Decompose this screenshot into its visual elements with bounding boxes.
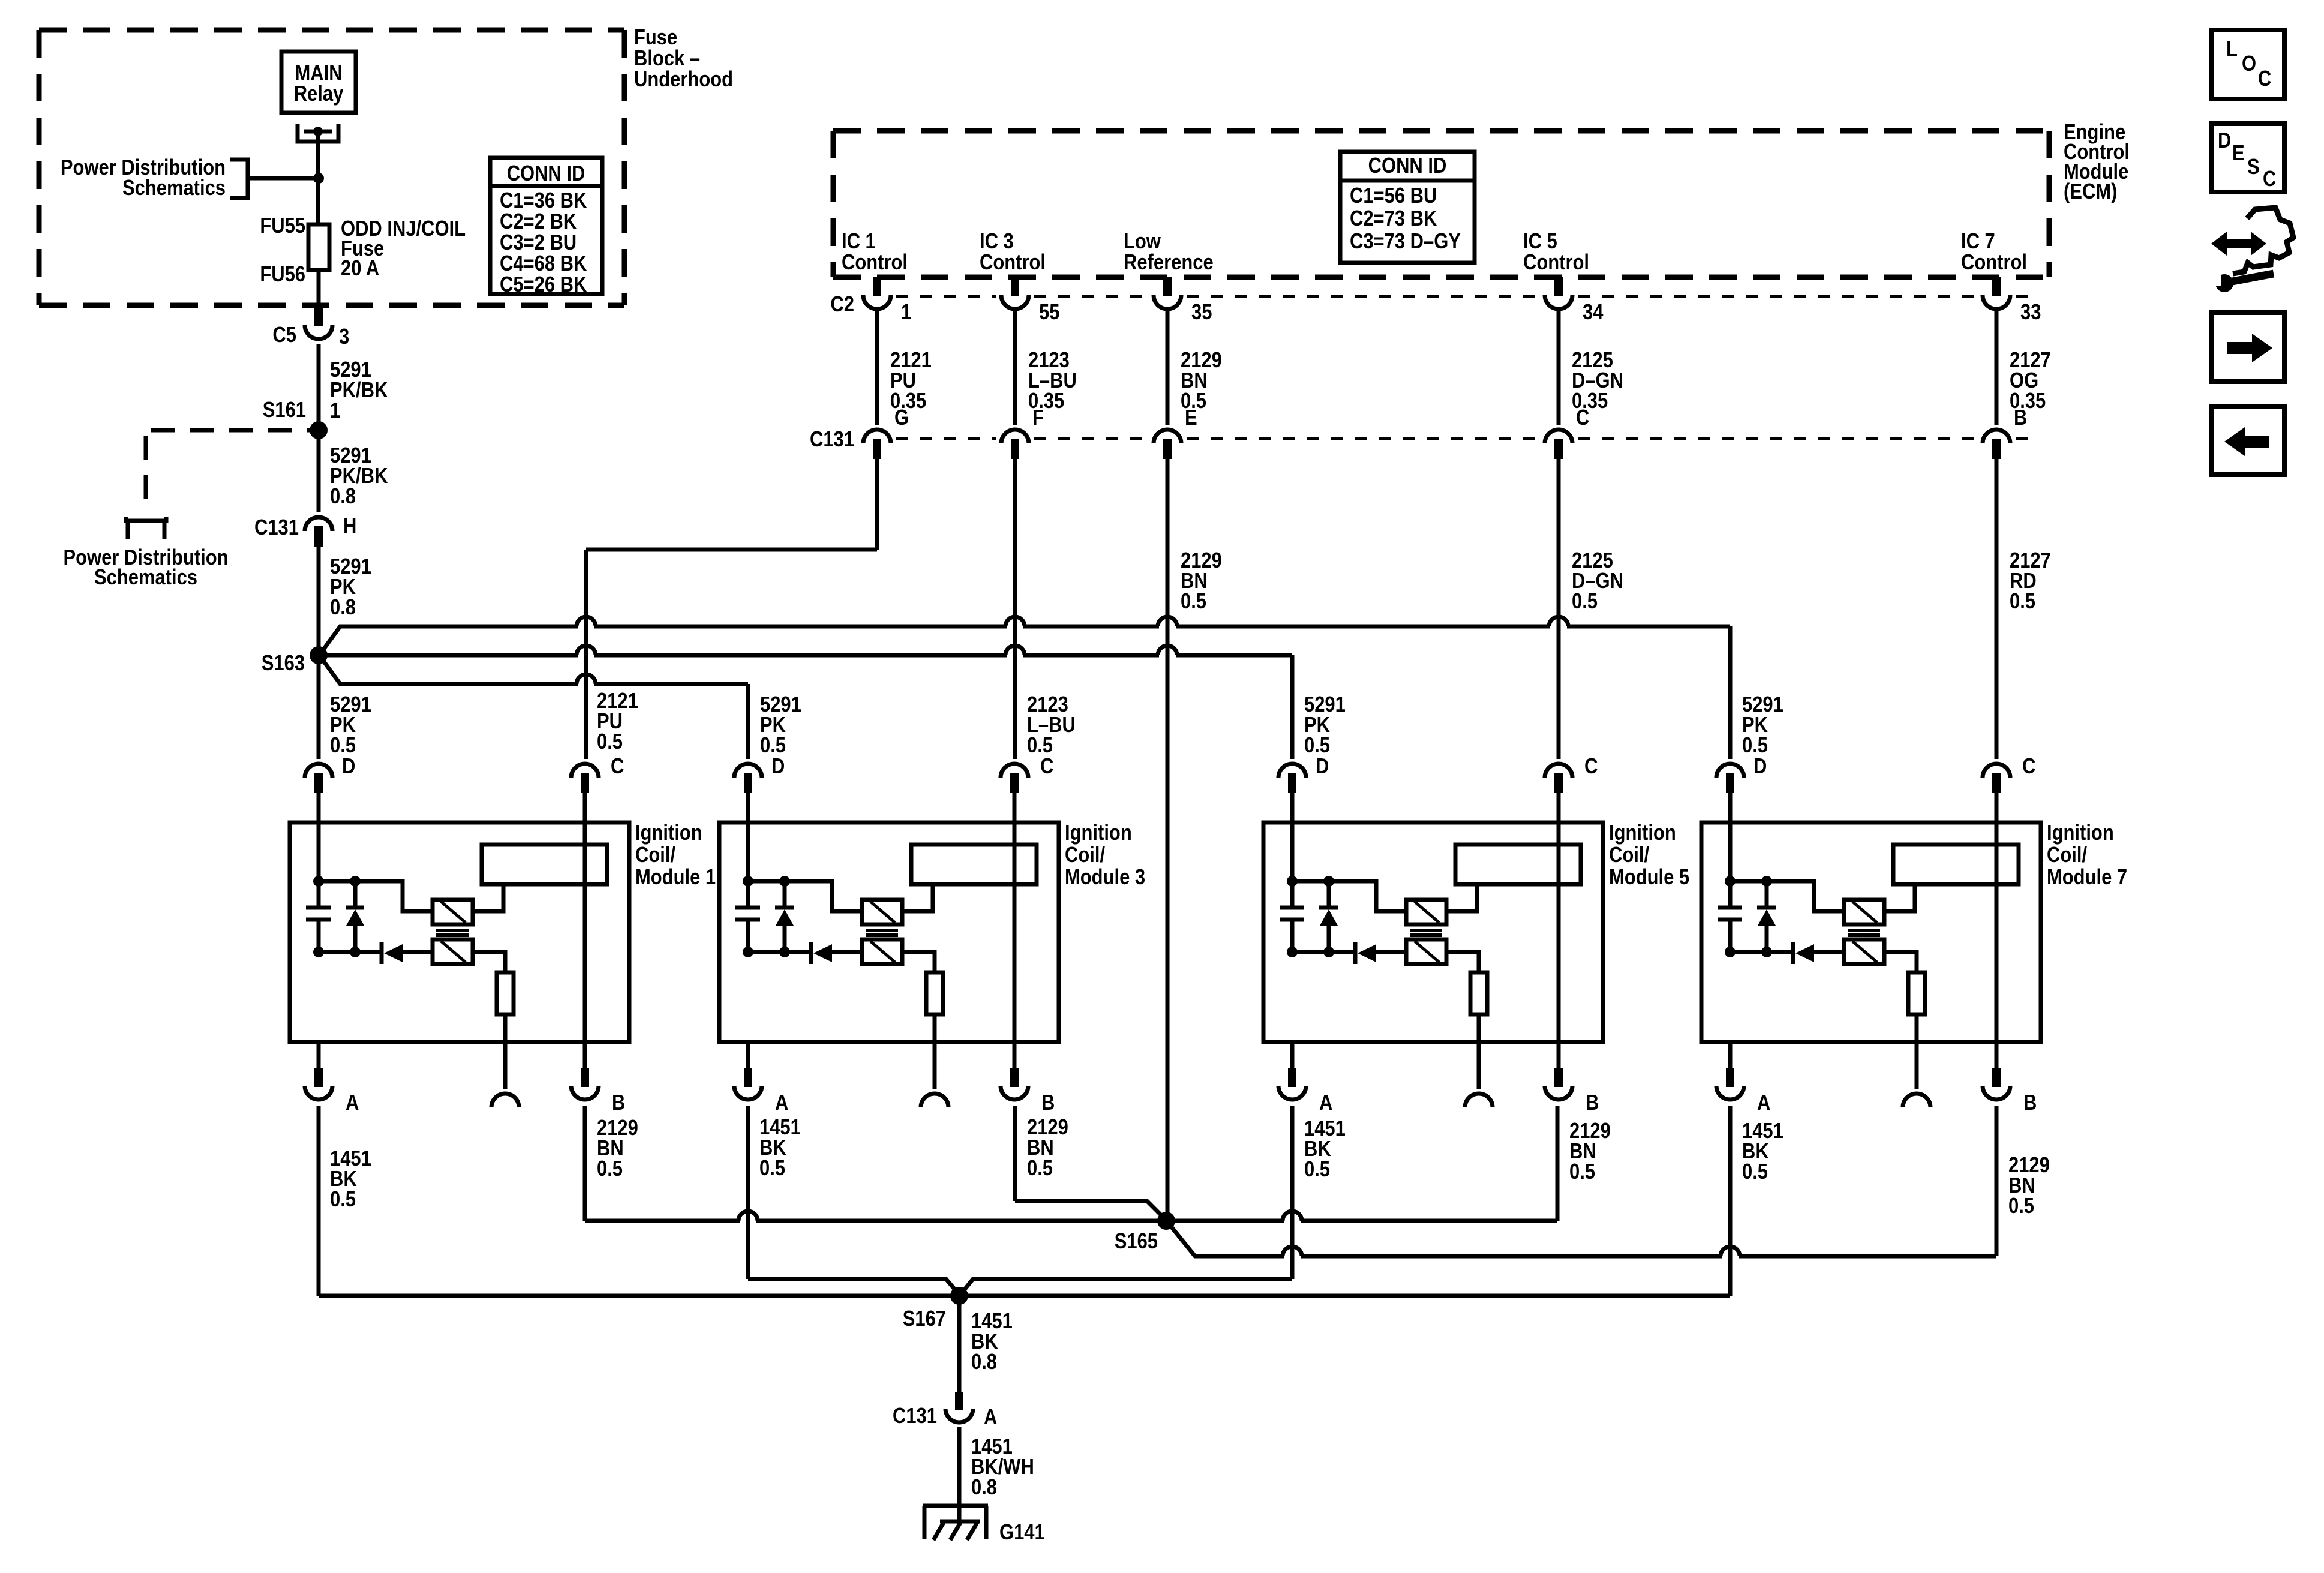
wire pin C through module 1 [583, 793, 587, 1068]
svg-text:34: 34 [1583, 301, 1604, 325]
svg-text:Control: Control [980, 251, 1046, 275]
svg-text:D: D [2218, 129, 2231, 153]
module 1 internal lower node right [350, 947, 361, 957]
svg-text:S: S [2247, 155, 2260, 179]
wire secondary to resistor module 7 [1884, 952, 1917, 972]
wire hop top branch over module3 C wire [1007, 623, 1023, 630]
wire resistor to spark output module 3 [933, 1014, 937, 1089]
ignition coil/module 1 connector pin D [305, 764, 332, 778]
connector C2 dotted gang line [896, 295, 996, 298]
wire hop S165-module7B wire over module5 A wire [1284, 1253, 1301, 1260]
capacitor module 7 [1728, 881, 1733, 906]
svg-text:0.5: 0.5 [1572, 590, 1598, 614]
wire 1451 BK 0.8 S167 to C131-A [957, 1296, 962, 1392]
svg-text:E: E [2232, 142, 2245, 166]
ignition coil/module 3 box [719, 822, 1059, 1042]
wire resistor to spark output module 5 [1477, 1014, 1481, 1089]
svg-text:IC 1: IC 1 [842, 230, 876, 254]
module 5 internal zener top node [1323, 876, 1334, 887]
svg-text:Coil/: Coil/ [2047, 843, 2087, 867]
svg-text:C: C [611, 755, 624, 779]
wire module 3 pin B to S165 [1015, 1201, 1166, 1220]
svg-text:C131: C131 [254, 516, 299, 540]
transformer core module 7 [1848, 929, 1880, 932]
splice S161 [310, 421, 328, 439]
ground G141 [923, 1504, 988, 1508]
connector C131 pin G [863, 430, 891, 443]
node power distribution tap [313, 173, 324, 184]
svg-text:D: D [771, 755, 785, 779]
module 5 internal lower node right [1323, 947, 1334, 957]
svg-text:IC 7: IC 7 [1961, 230, 1995, 254]
svg-text:B: B [612, 1091, 625, 1115]
module 5 internal lower node left [1287, 947, 1298, 957]
module 5 internal top wire to primary [1292, 881, 1406, 911]
wire module 5 pin D drop [1290, 655, 1295, 759]
fuse FU55/FU56 ODD INJ/COIL 20A [308, 224, 329, 270]
wire pin C through module 3 [1013, 793, 1017, 1068]
svg-text:Coil/: Coil/ [1609, 843, 1649, 867]
svg-text:CONN ID: CONN ID [1368, 154, 1447, 178]
svg-text:C2=2 BK: C2=2 BK [500, 210, 577, 234]
svg-text:C1=56 BU: C1=56 BU [1350, 184, 1437, 208]
svg-text:0.8: 0.8 [330, 485, 356, 509]
svg-text:Fuse: Fuse [634, 26, 677, 50]
svg-text:0.5: 0.5 [597, 1157, 623, 1181]
svg-text:55: 55 [1039, 301, 1059, 325]
table CONN ID fuse block [490, 158, 602, 294]
svg-text:0.5: 0.5 [330, 1188, 356, 1212]
wire diode to secondary module 7 [1814, 950, 1844, 954]
module 1 internal supply node [313, 876, 324, 887]
wire 2123 L-BU from ECM pin55 to C131-F [1013, 310, 1017, 425]
wire lower node to diode module 7 [1730, 950, 1791, 954]
wire 2127 RD 0.5 to module 7 pin C [1995, 459, 1999, 759]
secondary winding module 1 [433, 939, 473, 964]
connector C2 pin 33 [1992, 277, 2001, 296]
svg-text:IC 5: IC 5 [1523, 230, 1557, 254]
wire diode to secondary module 3 [832, 950, 862, 954]
svg-text:S163: S163 [262, 652, 305, 676]
connector C2 pin 35 [1163, 277, 1172, 296]
svg-text:0.8: 0.8 [330, 596, 356, 620]
wire S163 branch middle (5291 PK to module 5 pin D) [325, 653, 1292, 658]
icon button LOC [2211, 30, 2284, 99]
wire module 3 pin D drop [746, 684, 750, 759]
wire diode to secondary module 5 [1376, 950, 1406, 954]
svg-text:C2: C2 [830, 293, 854, 317]
engine control module dashed enclosure [833, 128, 2049, 134]
svg-text:0.5: 0.5 [1304, 1158, 1330, 1182]
icon button next page (right arrow) [2211, 313, 2284, 382]
svg-text:C: C [1576, 406, 1589, 430]
svg-text:Ignition: Ignition [635, 821, 702, 845]
wire 2129 BN from ECM pin35 to C131-E [1166, 310, 1170, 425]
svg-text:3: 3 [339, 325, 349, 349]
wire module 7 pin D drop [1728, 626, 1733, 759]
svg-text:Module 3: Module 3 [1065, 866, 1145, 890]
svg-text:A: A [346, 1091, 359, 1115]
spark plug output terminal module 3 [921, 1094, 948, 1107]
wire 2129 BN ground-reference bus into S165 [585, 1219, 1557, 1223]
connector C131 pin H [305, 517, 332, 531]
coil output block module 7 [1893, 845, 2019, 884]
ignition coil/module 3 connector pin C [1001, 764, 1028, 778]
svg-text:Underhood: Underhood [634, 68, 733, 92]
wire 2129 BN 0.5 low reference to S165 [1166, 459, 1170, 1221]
svg-text:0.5: 0.5 [1304, 734, 1330, 758]
svg-text:FU55: FU55 [260, 214, 305, 238]
zener diode module 5 [1327, 881, 1331, 907]
svg-text:C: C [2263, 167, 2276, 191]
svg-text:Schematics: Schematics [94, 566, 197, 590]
wire module 5 pin A to S167 [960, 1279, 1292, 1295]
svg-text:C5=26 BK: C5=26 BK [500, 273, 587, 297]
svg-text:G141: G141 [999, 1521, 1045, 1545]
wire 2121 PU bend from C131-G to module 1 pin C [586, 548, 877, 552]
module 1 internal top wire to primary [319, 881, 433, 911]
wire lower node to diode module 1 [319, 950, 380, 954]
wire pin D into module 3 [746, 793, 750, 882]
svg-text:Relay: Relay [294, 82, 344, 106]
svg-text:0.8: 0.8 [971, 1476, 997, 1500]
svg-text:Ignition: Ignition [1065, 821, 1132, 845]
svg-text:0.5: 0.5 [1742, 1160, 1768, 1184]
module 5 pin A connector [1290, 1042, 1295, 1068]
module 3 internal supply node [743, 876, 753, 887]
svg-text:Schematics: Schematics [122, 176, 226, 200]
capacitor module 5 [1290, 881, 1295, 906]
wire 1451 BK module 5 pin A drop [1290, 1106, 1295, 1279]
wire resistor to spark output module 1 [503, 1014, 508, 1089]
connector C131 pin C [1545, 430, 1572, 443]
wire 2129 BN from S165 to module 7 pin B [1167, 1222, 1996, 1256]
svg-text:S165: S165 [1115, 1230, 1158, 1254]
svg-text:0.5: 0.5 [1027, 1157, 1053, 1181]
svg-text:E: E [1185, 406, 1197, 430]
ignition coil/module 7 box [1701, 822, 2041, 1042]
diode module 1 [380, 942, 384, 964]
wire 5291 PK 0.5 from S163 to module 1 pin D [317, 655, 321, 759]
connector C131 pin B [1983, 430, 2010, 443]
secondary winding module 7 [1844, 939, 1884, 964]
capacitor module 3 [746, 881, 750, 906]
connector C5 pin 3 [314, 308, 323, 326]
wire 2121 PU from ECM pin1 to C131-G [875, 310, 879, 425]
svg-text:FU56: FU56 [260, 263, 305, 287]
connector C131 pin A [955, 1392, 963, 1410]
svg-text:S167: S167 [903, 1307, 946, 1331]
spark plug output terminal module 7 [1903, 1094, 1930, 1107]
svg-text:Control: Control [842, 251, 908, 275]
svg-text:Coil/: Coil/ [1065, 843, 1105, 867]
primary winding module 5 [1406, 900, 1446, 924]
wire main relay output to fuse FU55 [316, 131, 320, 224]
module 3 internal zener top node [779, 876, 790, 887]
svg-text:C: C [1040, 755, 1053, 779]
wire hop 2129 bus over module5 A wire [1284, 1217, 1301, 1224]
capacitor module 1 [317, 881, 321, 906]
splice S167 [950, 1287, 968, 1305]
module 7 internal zener top node [1761, 876, 1772, 887]
svg-text:A: A [775, 1091, 788, 1115]
wire hop S165-module7B wire over module7 A wire [1722, 1253, 1739, 1260]
relay K MAIN Relay box [281, 52, 356, 113]
primary winding module 3 [862, 900, 902, 924]
ignition coil/module 3 connector pin D [734, 764, 762, 778]
ignition coil/module 1 connector pin C [571, 764, 599, 778]
svg-text:H: H [343, 515, 356, 539]
svg-text:0.5: 0.5 [2010, 590, 2035, 614]
svg-text:0.5: 0.5 [1027, 734, 1053, 758]
connector C131 pin E [1154, 430, 1181, 443]
svg-text:Module 7: Module 7 [2047, 866, 2127, 890]
ignition coil/module 5 connector pin C [1545, 764, 1572, 778]
wire S163 branch bottom (5291 PK to module 3 pin D) [321, 658, 748, 684]
module 7 internal top wire to primary [1730, 881, 1844, 911]
module 3 internal lower node right [779, 947, 790, 957]
wire 2121 PU below C131-G [875, 459, 879, 550]
zener diode module 3 [783, 881, 787, 907]
wire fuse FU56 to connector C5 [317, 270, 321, 310]
wire 5291 PK 0.8 from C131-H to S163 [317, 547, 321, 651]
svg-text:C131: C131 [810, 428, 854, 452]
wire 5291 PK/BK 0.8 from S161 to C131-H [317, 430, 321, 512]
module 1 internal zener top node [350, 876, 361, 887]
svg-text:A: A [1319, 1091, 1332, 1115]
module 7 internal lower node left [1725, 947, 1736, 957]
svg-text:F: F [1032, 406, 1044, 430]
module 7 internal lower node right [1761, 947, 1772, 957]
svg-text:0.5: 0.5 [1181, 590, 1206, 614]
wire 1451 BK ground bus through S167 [319, 1294, 1730, 1298]
wire hop middle branch over low reference wire [1159, 652, 1176, 659]
svg-text:1: 1 [330, 399, 340, 423]
module 3 internal top wire to primary [748, 881, 862, 911]
svg-text:0.5: 0.5 [759, 1157, 785, 1181]
svg-text:0.5: 0.5 [330, 734, 356, 758]
wire 1451 BK module 3 pin A drop [746, 1106, 750, 1279]
resistor module 5 [1470, 972, 1487, 1014]
wire secondary to resistor module 5 [1446, 952, 1479, 972]
wire hop middle branch over module1 C wire [578, 652, 594, 659]
zener diode module 1 [353, 881, 358, 907]
wire 1451 BK/WH 0.8 to ground [957, 1427, 962, 1521]
diode module 5 [1353, 942, 1358, 964]
wire pin C through module 7 [1995, 793, 1999, 1068]
wire 2129 BN module 7 pin B drop [1995, 1106, 1999, 1256]
wire module 3 pin A to S167 [748, 1279, 959, 1295]
svg-text:Control: Control [1523, 251, 1589, 275]
wire hop bottom branch over module1 C wire [578, 680, 594, 688]
svg-text:L: L [2226, 38, 2238, 62]
svg-text:(ECM): (ECM) [2064, 180, 2117, 204]
splice S165 [1157, 1212, 1175, 1230]
svg-text:C2=73 BK: C2=73 BK [1350, 207, 1437, 231]
transformer core module 3 [866, 929, 898, 932]
wire resistor to spark output module 7 [1915, 1014, 1919, 1089]
resistor module 1 [497, 972, 514, 1014]
ignition coil/module 5 connector pin D [1278, 764, 1306, 778]
svg-text:0.5: 0.5 [1569, 1160, 1595, 1184]
module 3 internal lower node left [743, 947, 753, 957]
wire hop top branch over module1 C wire [578, 623, 594, 630]
svg-text:Control: Control [1961, 251, 2027, 275]
transformer core module 1 [436, 929, 469, 932]
svg-text:C: C [2258, 67, 2271, 91]
module 5 internal supply node [1287, 876, 1298, 887]
svg-text:D: D [1316, 755, 1329, 779]
wire 2125 D-GN 0.5 to module 5 pin C [1557, 459, 1561, 759]
svg-text:D: D [1753, 755, 1767, 779]
svg-text:Ignition: Ignition [1609, 821, 1676, 845]
connector C131 dotted gang line [896, 437, 996, 440]
svg-text:C4=68 BK: C4=68 BK [500, 252, 587, 276]
module 1 pin A connector [317, 1042, 321, 1068]
module 1 pin B connector [581, 1068, 589, 1087]
svg-text:C: C [2022, 755, 2035, 779]
module 7 pin B connector [1992, 1068, 2001, 1087]
wire 2125 D-GN from ECM pin34 to C131-C [1557, 310, 1561, 425]
resistor module 3 [926, 972, 943, 1014]
wire pin D into module 1 [317, 793, 321, 882]
off-page bracket power distribution [230, 160, 248, 198]
icon button previous page (left arrow) [2211, 406, 2284, 475]
svg-text:D: D [342, 755, 355, 779]
secondary winding module 5 [1406, 939, 1446, 964]
wire S163 branch top (5291 PK to module 7 pin D) [321, 626, 1730, 653]
module 7 pin A connector [1728, 1042, 1733, 1068]
wire 2129 BN module 5 pin B drop [1556, 1106, 1560, 1221]
wire 1451 BK module 7 pin A drop [1728, 1106, 1733, 1296]
icon vehicle diagnostic (car with arrows and wrench) [2233, 208, 2293, 274]
wire primary to coil tower block module 3 [902, 884, 933, 911]
svg-text:0.5: 0.5 [1742, 734, 1768, 758]
wire secondary to resistor module 3 [902, 952, 935, 972]
wire pin D into module 7 [1728, 793, 1733, 882]
wire diode to secondary module 1 [403, 950, 433, 954]
wire hop middle branch over module3 C wire [1007, 652, 1023, 659]
svg-text:G: G [894, 406, 909, 430]
secondary winding module 3 [862, 939, 902, 964]
svg-text:A: A [984, 1406, 997, 1430]
svg-text:B: B [2023, 1091, 2037, 1115]
coil output block module 3 [911, 845, 1037, 884]
diode module 3 [809, 942, 813, 964]
svg-text:0.5: 0.5 [760, 734, 786, 758]
svg-text:Low: Low [1124, 230, 1161, 254]
transformer core module 5 [1410, 929, 1442, 932]
spark plug output terminal module 5 [1465, 1094, 1493, 1107]
connector C131 pin F [1001, 430, 1029, 443]
zener diode module 7 [1765, 881, 1769, 907]
spark plug output terminal module 1 [491, 1094, 519, 1107]
wire lower node to diode module 5 [1292, 950, 1353, 954]
svg-text:C3=73 D–GY: C3=73 D–GY [1350, 230, 1461, 254]
wire primary to coil tower block module 5 [1446, 884, 1477, 911]
wire hop top branch over module5 C wire [1550, 623, 1567, 630]
wire pin C through module 5 [1557, 793, 1561, 1068]
primary winding module 7 [1844, 900, 1884, 924]
main relay socket bracket [298, 124, 338, 142]
svg-text:C1=36 BK: C1=36 BK [500, 189, 587, 213]
wire primary to coil tower block module 7 [1884, 884, 1915, 911]
svg-text:0.5: 0.5 [597, 730, 623, 754]
icon button DESC [2211, 124, 2284, 192]
svg-text:C131: C131 [893, 1404, 937, 1428]
wire 2123 L-BU 0.5 to module 3 pin C [1013, 459, 1017, 759]
wire tap to power distribution schematics [248, 176, 317, 181]
coil output block module 5 [1455, 845, 1581, 884]
module 3 pin B connector [1010, 1068, 1019, 1087]
svg-text:A: A [1757, 1091, 1770, 1115]
module 1 internal lower node left [313, 947, 324, 957]
svg-text:33: 33 [2020, 301, 2041, 325]
module 5 pin B connector [1554, 1068, 1563, 1087]
svg-text:B: B [1041, 1091, 1055, 1115]
wire secondary to resistor module 1 [473, 952, 505, 972]
module 7 internal supply node [1725, 876, 1736, 887]
connector C2 pin 55 [1011, 277, 1019, 296]
table CONN ID ECM [1340, 152, 1475, 263]
svg-text:Module 1: Module 1 [635, 866, 716, 890]
wire hop top branch over low reference wire [1159, 623, 1176, 630]
svg-text:Block –: Block – [634, 47, 700, 71]
wire lower node to diode module 3 [748, 950, 809, 954]
connector C2 pin 34 [1554, 277, 1563, 296]
coil output block module 1 [482, 845, 607, 884]
wire 5291 PK/BK 1 from C5 to S161 [317, 344, 321, 426]
wire hop 2129 bus over module3 A wire [740, 1217, 756, 1224]
off-page bracket power distribution (lower) [126, 517, 166, 539]
primary winding module 1 [433, 900, 473, 924]
module 3 pin A connector [746, 1042, 750, 1068]
svg-text:Coil/: Coil/ [635, 843, 675, 867]
node main relay output [313, 127, 323, 136]
connector C2 pin 1 [873, 277, 881, 296]
svg-text:0.8: 0.8 [971, 1350, 997, 1374]
svg-text:B: B [2014, 406, 2027, 430]
svg-text:B: B [1586, 1091, 1599, 1115]
wire 2129 BN module 1 pin B to S165 bus [583, 1106, 587, 1221]
svg-text:C3=2 BU: C3=2 BU [500, 231, 577, 255]
svg-text:C5: C5 [272, 323, 296, 347]
svg-text:0.5: 0.5 [2008, 1194, 2034, 1218]
svg-text:CONN ID: CONN ID [507, 162, 585, 186]
fuse block underhood dashed enclosure [39, 28, 624, 33]
svg-text:35: 35 [1191, 301, 1212, 325]
wire 2129 BN module 3 pin B drop [1013, 1106, 1017, 1201]
ignition coil/module 7 connector pin C [1983, 764, 2010, 778]
svg-text:C: C [1584, 755, 1598, 779]
wire 1451 BK module 1 pin A to ground bus [317, 1106, 321, 1296]
ignition coil/module 1 box [290, 822, 629, 1042]
svg-text:S161: S161 [263, 398, 306, 422]
diode module 7 [1791, 942, 1795, 964]
dashed branch wire to power distribution [151, 428, 310, 433]
wire 2127 OG from ECM pin33 to C131-B [1995, 310, 1999, 425]
ignition coil/module 5 box [1263, 822, 1603, 1042]
svg-text:20 A: 20 A [341, 257, 379, 281]
splice S163 [310, 646, 328, 664]
wire primary to coil tower block module 1 [473, 884, 503, 911]
wire pin D into module 5 [1290, 793, 1295, 882]
svg-text:IC 3: IC 3 [980, 230, 1014, 254]
svg-text:1: 1 [901, 301, 911, 325]
wire 2121 PU drop to module 1 pin C [584, 550, 588, 759]
svg-text:Module 5: Module 5 [1609, 866, 1689, 890]
svg-text:Ignition: Ignition [2047, 821, 2114, 845]
